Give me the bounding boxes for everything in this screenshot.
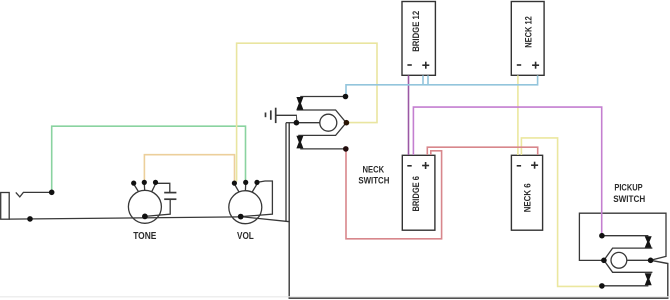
node: volume lug 3: [254, 180, 259, 185]
potentiometer TONE: [128, 184, 161, 223]
wire: yellow neck12 minus to neck6 minus: [517, 75, 519, 155]
contact: neck switch top throw: [300, 96, 345, 98]
wire: ground bus outer run to pickup switch common: [289, 123, 668, 299]
node: tone casing: [142, 214, 148, 220]
svg-text:SWITCH: SWITCH: [358, 175, 389, 185]
node: volume lug 2: [243, 180, 248, 185]
wire: red bridge6 plus to neck6 plus: [427, 147, 537, 155]
wire: jack sleeve to ground bus: [9, 217, 240, 219]
wire: orange tone middle lug to volume left lug: [144, 155, 234, 182]
node: pickup switch top terminal: [599, 233, 605, 239]
svg-text:BRIDGE 6: BRIDGE 6: [411, 176, 421, 212]
svg-text:PICKUP: PICKUP: [614, 182, 642, 192]
node: volume lug 1: [232, 181, 237, 186]
svg-text:NECK 6: NECK 6: [523, 183, 533, 212]
svg-text:SWITCH: SWITCH: [613, 194, 645, 204]
wire: green jack tip to volume middle lug: [52, 126, 246, 192]
wire: ground bus left branch to volume casing junction: [285, 123, 287, 222]
node: pickup switch bottom terminal: [599, 283, 605, 289]
node: tone lug 1: [131, 181, 136, 186]
node: pickup switch pole: [601, 258, 607, 264]
wire: cyan bus bridge12 plus: [346, 75, 538, 95]
wire: yellow volume left lug to neck switch pole: [237, 43, 377, 181]
wire: yellow neck6 to pickup switch bottom: [521, 138, 600, 287]
node: tone lug 2: [142, 180, 147, 185]
output jack J1: [1, 192, 52, 219]
wire: neck switch common stub left: [286, 122, 296, 124]
switch: pickup switch body U2: [604, 248, 653, 272]
wire: volume casing to ground wires: [241, 217, 290, 222]
wire: ground lead to neck switch common: [276, 115, 297, 121]
switch: neck switch body U1: [297, 110, 347, 135]
pickup BRIDGE 12: [402, 2, 435, 76]
wire: cyan stub a: [422, 75, 424, 84]
pickup NECK 6: [511, 155, 542, 230]
node: tone lug 3: [153, 180, 158, 185]
contact: neck switch bottom throw: [300, 148, 346, 150]
faint bottom border line: [0, 296, 670, 298]
node: pickup switch common: [648, 258, 654, 264]
node: neck switch bottom terminal: [343, 146, 349, 152]
pickup BRIDGE 6: [402, 155, 435, 230]
node: jack tip junction: [49, 190, 55, 196]
node: neck switch pole output: [344, 120, 350, 126]
svg-text:BRIDGE 12: BRIDGE 12: [411, 11, 421, 52]
wire: purple bridge12 minus to bridge6 minus: [408, 75, 410, 155]
ground symbol: [266, 108, 297, 123]
capacitor C1: [145, 183, 177, 216]
svg-text:VOL: VOL: [237, 231, 254, 242]
node: jack sleeve junction: [27, 216, 33, 222]
wire: volume right lug to casing: [241, 181, 273, 217]
wire: red bridge6 plus to neck switch bottom throw: [346, 151, 442, 239]
node: neck switch top terminal: [343, 94, 349, 100]
svg-text:NECK: NECK: [363, 164, 385, 174]
node: volume casing: [238, 214, 244, 220]
wire: magenta bridge6 minus to pickup switch top: [413, 107, 601, 234]
wire: cyan stub b: [427, 75, 429, 84]
contact: pickup switch bottom throw: [602, 285, 649, 287]
contact: pickup switch top throw: [602, 235, 649, 237]
node: neck switch common: [294, 120, 300, 126]
potentiometer VOL: [229, 184, 262, 224]
wire: pickup switch pole loop: [579, 213, 666, 260]
pickup NECK 12: [511, 2, 544, 76]
svg-text:TONE: TONE: [133, 231, 156, 242]
svg-text:NECK 12: NECK 12: [524, 16, 534, 48]
